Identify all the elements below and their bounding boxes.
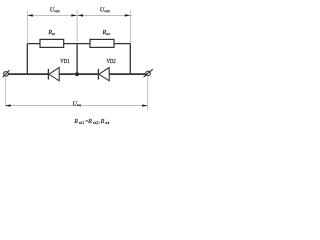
arrowhead left of U2	[78, 14, 84, 16]
wire: right vertical	[129, 44, 131, 75]
svg-text:Uce(q2): Uce(q2)	[100, 6, 110, 13]
junction node	[75, 72, 79, 76]
arrowhead right of U1	[71, 14, 77, 16]
svg-text:Rst1: Rst1	[47, 29, 55, 36]
dimension extension line left (x=27.3)	[26, 11, 28, 44]
arrowhead right of U2	[125, 14, 131, 16]
bottom dimension line U_ceq	[5, 105, 148, 107]
wire: resistor row	[27, 43, 130, 45]
wire: main row right segment	[109, 73, 146, 75]
resistor R_st2	[90, 39, 114, 47]
svg-text:R: R	[87, 118, 92, 125]
bottom extension line right	[147, 78, 149, 111]
arrowhead left of U1	[27, 14, 33, 16]
svg-text:R: R	[100, 118, 105, 125]
svg-text:VD2: VD2	[107, 58, 116, 65]
formula R_st1=R_st2,R_st	[73, 118, 110, 125]
svg-text:Rst2: Rst2	[102, 29, 111, 36]
diode VD1	[48, 68, 59, 81]
svg-text:st2: st2	[93, 121, 99, 125]
arrowhead bottom right	[142, 104, 148, 106]
wire: middle vertical	[76, 44, 78, 75]
svg-text:Uceq: Uceq	[72, 100, 81, 107]
terminal left	[3, 70, 10, 77]
svg-text:VD1: VD1	[60, 58, 69, 65]
dimension line U2 span	[77, 14, 132, 16]
svg-text:Uce(q1): Uce(q1)	[50, 6, 60, 13]
svg-text:R: R	[73, 118, 78, 125]
bottom extension line left	[4, 78, 6, 107]
wire: left vertical	[26, 44, 28, 75]
dimension extension line right (x=130.3)	[129, 10, 131, 44]
wire: main row middle segment	[59, 73, 98, 75]
dimension extension line middle (x=77.1)	[76, 10, 78, 44]
arrowhead bottom left	[5, 104, 11, 106]
terminal right	[144, 69, 153, 77]
dimension line U1 span	[27, 14, 77, 16]
svg-text:st1: st1	[79, 121, 84, 125]
resistor R_st1	[40, 39, 64, 47]
diode VD2	[98, 68, 109, 81]
wire: main row left segment	[8, 73, 48, 75]
svg-text:st: st	[105, 121, 110, 125]
